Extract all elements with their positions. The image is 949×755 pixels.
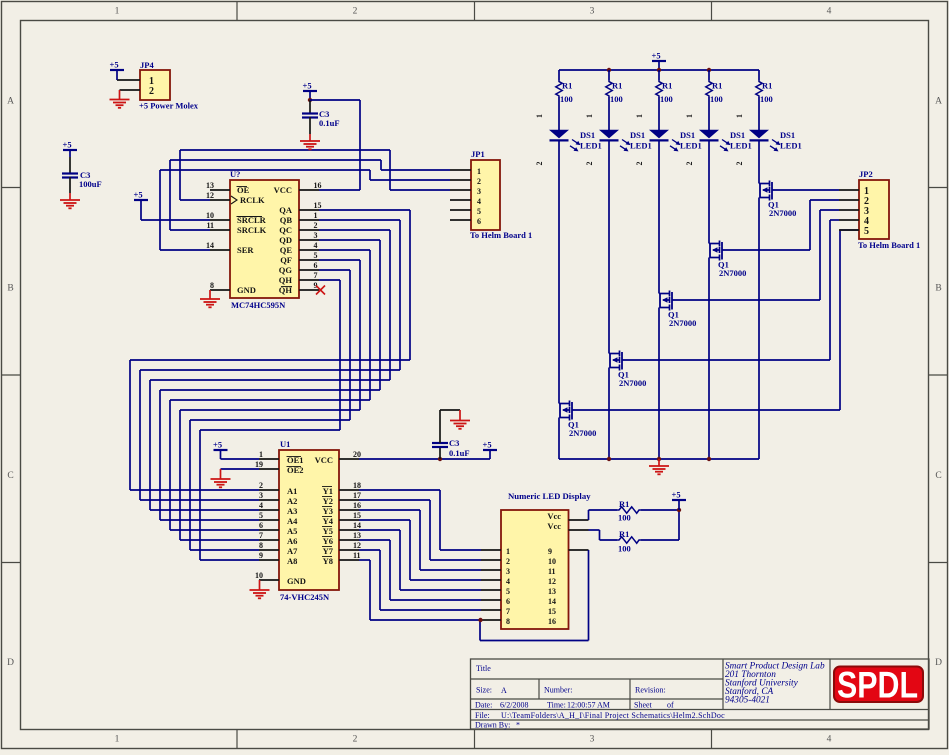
svg-text:4: 4 <box>827 7 832 17</box>
svg-text:100uF: 100uF <box>79 179 102 189</box>
svg-text:LED1: LED1 <box>680 141 702 151</box>
pin U2.2 QC <box>299 221 319 230</box>
pin U2.7 QH <box>299 271 319 280</box>
pin U1.3 A2 <box>259 491 279 500</box>
wire Q1 gate to JP2.1 <box>772 189 839 191</box>
svg-text:QF: QF <box>280 255 292 265</box>
wire Y2 to display pin 2 <box>359 500 481 560</box>
svg-text:2: 2 <box>506 557 510 566</box>
ground at LED rail <box>649 459 669 474</box>
pin JP1.2 <box>450 179 471 181</box>
svg-text:20: 20 <box>353 450 361 459</box>
svg-text:3: 3 <box>477 187 481 196</box>
pin U2.4 QE <box>299 241 319 250</box>
pin display.7 <box>481 609 501 611</box>
svg-text:2: 2 <box>353 7 358 17</box>
svg-text:15: 15 <box>548 607 556 616</box>
wire Y8 to display pin 8 <box>359 560 481 620</box>
pin U2.16 VCC <box>299 181 322 190</box>
pin U1.7 A6 <box>259 531 279 540</box>
svg-text:5: 5 <box>314 251 318 260</box>
svg-text:8: 8 <box>259 541 263 550</box>
svg-text:A5: A5 <box>287 526 297 536</box>
svg-text:7: 7 <box>259 531 263 540</box>
svg-text:QG: QG <box>279 265 293 275</box>
svg-text:QE: QE <box>280 245 293 255</box>
svg-text:9: 9 <box>259 551 263 560</box>
svg-text:2: 2 <box>149 86 154 97</box>
svg-text:15: 15 <box>314 201 322 210</box>
svg-text:5: 5 <box>506 587 510 596</box>
wire Y1 to display pin 1 <box>359 490 481 550</box>
svg-text:2: 2 <box>535 162 544 166</box>
pin U1.5 A4 <box>259 511 279 520</box>
svg-text:LED1: LED1 <box>730 141 752 151</box>
pin display.2 <box>481 559 501 561</box>
svg-text:2N7000: 2N7000 <box>669 318 696 328</box>
junction LED rail x659 <box>657 68 661 72</box>
wire Y6 to display pin 6 <box>359 540 481 600</box>
svg-text:R1: R1 <box>762 81 772 91</box>
resistor R1 (LED column 1) <box>556 70 573 104</box>
svg-text:B: B <box>935 284 941 294</box>
svg-text:+5: +5 <box>672 490 681 500</box>
svg-text:+5: +5 <box>652 51 661 61</box>
pin JP1.5 <box>450 209 471 211</box>
svg-text:R1: R1 <box>619 499 629 509</box>
svg-text:Drawn By:: Drawn By: <box>475 721 510 730</box>
svg-text:12: 12 <box>353 541 361 550</box>
svg-text:A6: A6 <box>287 536 297 546</box>
pin U2.3 QD <box>299 231 319 240</box>
svg-text:6/2/2008: 6/2/2008 <box>500 701 528 710</box>
svg-text:2: 2 <box>259 481 263 490</box>
svg-text:7: 7 <box>314 271 318 280</box>
junction top C3 <box>308 98 312 102</box>
wire +5 LED rail <box>559 69 759 71</box>
transistor Q1 2N7000 (JP2 pin 5) <box>559 401 596 439</box>
transistor Q1 2N7000 (JP2 pin 2) <box>709 241 746 279</box>
junction LED rail x609 <box>607 68 611 72</box>
ground at C3 0.1uF (U2) <box>300 134 320 149</box>
ground at U1 GND <box>250 580 270 598</box>
wire QD to U1 A4 <box>160 240 380 520</box>
pin display.1 <box>481 549 501 551</box>
wire R1 to LED 2 <box>608 97 610 130</box>
svg-text:R1: R1 <box>662 81 672 91</box>
wire U1.19 to ground <box>221 468 260 470</box>
ground at JP4 <box>110 90 130 108</box>
svg-text:A4: A4 <box>287 516 298 526</box>
pin JP1.6 <box>450 219 471 221</box>
wire display pin9 loop to pin8 <box>480 550 589 641</box>
svg-text:100: 100 <box>660 94 673 104</box>
svg-text:JP2: JP2 <box>859 169 873 179</box>
svg-text:2: 2 <box>477 177 481 186</box>
capacitor C3 0.1uF (U1) <box>432 410 470 459</box>
wire U1 VCC net <box>359 458 490 460</box>
svg-text:4: 4 <box>506 577 510 586</box>
pin U2.10 SRCLR <box>206 211 230 220</box>
svg-text:2: 2 <box>735 162 744 166</box>
svg-text:3: 3 <box>259 491 263 500</box>
svg-text:JP4: JP4 <box>140 60 154 70</box>
connector JP4 <box>139 60 199 111</box>
pin JP1.4 <box>450 199 471 201</box>
svg-text:Y1: Y1 <box>323 486 333 496</box>
pin U1.10 GND <box>255 571 279 580</box>
svg-text:2N7000: 2N7000 <box>719 268 746 278</box>
svg-text:1: 1 <box>735 114 744 118</box>
svg-text:3: 3 <box>506 567 510 576</box>
wire Y5 to display pin 5 <box>359 530 481 590</box>
pin U1.4 A3 <box>259 501 279 510</box>
svg-text:MC74HC595N: MC74HC595N <box>231 300 286 310</box>
wire +5 to U1.1 <box>221 458 260 460</box>
svg-text:QC: QC <box>279 225 292 235</box>
svg-text:C: C <box>7 471 13 481</box>
svg-text:DS1: DS1 <box>680 130 695 140</box>
resistor R1 (LED column 5) <box>756 70 773 104</box>
wire Q5 gate to JP2.5 <box>572 230 860 410</box>
pin U1.9 A8 <box>259 551 279 560</box>
wire QH to U1 A8 <box>200 280 340 560</box>
+5 at LED rail <box>652 51 667 71</box>
transistor Q1 2N7000 (JP2 pin 4) <box>609 351 646 389</box>
address block <box>725 662 825 706</box>
svg-text:Time:: Time: <box>547 701 566 710</box>
svg-text:7: 7 <box>506 607 510 616</box>
svg-text:13: 13 <box>548 587 556 596</box>
svg-text:94305-4021: 94305-4021 <box>725 696 770 706</box>
svg-text:A8: A8 <box>287 556 297 566</box>
wire LED 4 cathode to Q1 drain <box>708 140 710 243</box>
pin display Vcc2 <box>569 529 589 531</box>
pin U1.2 A1 <box>259 481 279 490</box>
svg-text:16: 16 <box>548 617 556 626</box>
junction U1 VCC <box>438 457 442 461</box>
svg-text:10: 10 <box>255 571 263 580</box>
pin display.6 <box>481 599 501 601</box>
svg-text:2: 2 <box>585 162 594 166</box>
svg-text:Title: Title <box>476 664 491 673</box>
svg-text:*: * <box>516 721 520 730</box>
title block texts <box>475 664 725 730</box>
pin U2.5 QF <box>299 251 319 260</box>
junction rail x659 <box>657 457 661 461</box>
svg-text:Sheet: Sheet <box>634 701 653 710</box>
svg-text:+5 Power Molex: +5 Power Molex <box>139 101 199 111</box>
junction display +5 <box>677 508 681 512</box>
svg-text:74-VHC245N: 74-VHC245N <box>280 592 330 602</box>
svg-text:B: B <box>7 284 13 294</box>
wire QE to U1 A5 <box>170 250 370 530</box>
transistor Q1 2N7000 (JP2 pin 1) <box>759 181 796 219</box>
svg-text:10: 10 <box>548 557 556 566</box>
capacitor C3 0.1uF (U2) <box>302 100 340 134</box>
svg-text:+5: +5 <box>213 440 222 450</box>
wire LED 2 cathode to Q1 drain <box>608 140 610 353</box>
svg-text:SER: SER <box>237 245 254 255</box>
svg-text:DS1: DS1 <box>630 130 645 140</box>
svg-text:+5: +5 <box>303 81 312 91</box>
svg-text:15: 15 <box>353 511 361 520</box>
pin display.5 <box>481 589 501 591</box>
pin U1.17 Y2 <box>339 491 361 500</box>
+5 at C3 100uF <box>63 140 78 158</box>
svg-text:1: 1 <box>314 211 318 220</box>
svg-text:4: 4 <box>259 501 263 510</box>
svg-text:Y6: Y6 <box>323 536 333 546</box>
svg-text:19: 19 <box>255 460 263 469</box>
svg-text:File:: File: <box>475 711 490 720</box>
wire Y7 to display pin 7 <box>359 550 481 610</box>
svg-text:Y7: Y7 <box>323 546 334 556</box>
svg-text:6: 6 <box>259 521 263 530</box>
svg-text:Date:: Date: <box>475 701 492 710</box>
svg-text:18: 18 <box>353 481 361 490</box>
pin U2.13 OE <box>206 181 230 190</box>
svg-text:14: 14 <box>548 597 556 606</box>
svg-text:10: 10 <box>206 211 214 220</box>
svg-text:Size:: Size: <box>476 686 492 695</box>
svg-text:11: 11 <box>548 567 556 576</box>
svg-text:16: 16 <box>314 181 322 190</box>
wire SRCLK net <box>170 160 450 230</box>
svg-text:5: 5 <box>864 226 869 237</box>
ground at U1 OE2 <box>211 469 231 487</box>
pin U1.19 OE2 <box>255 460 279 469</box>
wire Q sources to ground rail <box>559 198 759 460</box>
svg-text:100: 100 <box>618 513 631 523</box>
svg-text:14: 14 <box>206 241 214 250</box>
wire R1 to +5 riser <box>678 510 680 540</box>
svg-text:3: 3 <box>314 231 318 240</box>
pin display.4 <box>481 579 501 581</box>
svg-text:11: 11 <box>206 221 214 230</box>
pin U1.12 Y7 <box>339 541 361 550</box>
svg-text:12:00:57 AM: 12:00:57 AM <box>567 701 610 710</box>
svg-text:2: 2 <box>685 162 694 166</box>
resistor R1 (LED column 4) <box>706 70 723 104</box>
wire Q4 gate to JP2.4 <box>622 220 840 360</box>
svg-text:11: 11 <box>353 551 361 560</box>
svg-text:D: D <box>7 658 14 668</box>
svg-text:SPDL: SPDL <box>837 665 918 706</box>
svg-text:4: 4 <box>314 241 318 250</box>
svg-text:RCLK: RCLK <box>240 195 265 205</box>
wire +5 to U2.10 <box>141 219 210 221</box>
svg-text:9: 9 <box>548 547 552 556</box>
wire R1 to LED 3 <box>658 97 660 130</box>
svg-text:DS1: DS1 <box>730 130 745 140</box>
wire LED 3 cathode to Q1 drain <box>658 140 660 293</box>
svg-text:A3: A3 <box>287 506 297 516</box>
pin display Vcc1 <box>569 519 589 521</box>
wire R1 to LED 4 <box>708 97 710 130</box>
svg-text:A: A <box>7 97 14 107</box>
junction LED rail x709 <box>707 68 711 72</box>
svg-text:Y2: Y2 <box>323 496 333 506</box>
svg-text:100: 100 <box>710 94 723 104</box>
pin U2.6 QG <box>299 261 319 270</box>
svg-text:VCC: VCC <box>274 185 292 195</box>
LED DS1 (column 5) <box>749 130 802 152</box>
wire Y4 to display pin 4 <box>359 520 481 580</box>
svg-text:A: A <box>935 97 942 107</box>
svg-text:100: 100 <box>760 94 773 104</box>
+5 at JP4 <box>110 60 125 81</box>
svg-text:2N7000: 2N7000 <box>769 208 796 218</box>
svg-text:Number:: Number: <box>544 686 572 695</box>
pin JP4.1 <box>117 79 140 81</box>
pin U2.8 GND <box>210 281 230 290</box>
wire QA to U1 A1 <box>130 210 410 490</box>
svg-text:1: 1 <box>506 547 510 556</box>
LED DS1 (column 2) <box>599 130 652 152</box>
svg-text:R1: R1 <box>562 81 572 91</box>
svg-text:12: 12 <box>206 191 214 200</box>
+5 at display resistors <box>672 490 687 511</box>
pin display.3 <box>481 569 501 571</box>
svg-text:Y3: Y3 <box>323 506 333 516</box>
ground at C3 (U1) <box>450 410 470 429</box>
svg-text:2N7000: 2N7000 <box>569 428 596 438</box>
svg-text:U1: U1 <box>280 439 290 449</box>
pin U2.14 SER <box>206 241 230 250</box>
svg-text:1: 1 <box>115 735 120 745</box>
wire QC to U1 A3 <box>150 230 390 510</box>
IC U2 MC74HC595N <box>230 169 299 310</box>
svg-text:12: 12 <box>548 577 556 586</box>
svg-text:2: 2 <box>353 735 358 745</box>
svg-text:+5: +5 <box>63 140 72 150</box>
connector JP2 <box>858 169 920 250</box>
pin U1.13 Y6 <box>339 531 361 540</box>
svg-text:4: 4 <box>477 197 481 206</box>
svg-text:8: 8 <box>506 617 510 626</box>
pin display.9 <box>569 549 589 551</box>
svg-text:5: 5 <box>259 511 263 520</box>
svg-text:0.1uF: 0.1uF <box>449 448 470 458</box>
svg-text:QH: QH <box>279 275 293 285</box>
pin U1.15 Y4 <box>339 511 361 520</box>
svg-text:LED1: LED1 <box>780 141 802 151</box>
svg-text:VCC: VCC <box>315 455 333 465</box>
wire SER net <box>160 170 450 250</box>
svg-text:Y8: Y8 <box>323 556 333 566</box>
svg-text:+5: +5 <box>134 190 143 200</box>
svg-text:DS1: DS1 <box>780 130 795 140</box>
+5 at U1 VCC <box>483 440 498 460</box>
svg-text:1: 1 <box>535 114 544 118</box>
pin JP2.1 <box>839 189 859 191</box>
svg-text:QA: QA <box>279 205 293 215</box>
svg-text:14: 14 <box>353 521 361 530</box>
wire QG to U1 A7 <box>190 270 350 550</box>
svg-text:Vcc: Vcc <box>547 521 561 531</box>
resistor R1 (LED column 2) <box>606 70 623 104</box>
pin U1.6 A5 <box>259 521 279 530</box>
pin JP2.5 <box>839 229 859 231</box>
no-connect X at U2.9 <box>316 286 325 295</box>
LED DS1 (column 1) <box>549 130 602 152</box>
svg-text:QB: QB <box>280 215 293 225</box>
svg-text:100: 100 <box>610 94 623 104</box>
pin display.8 <box>481 619 501 621</box>
pin U2.11 SRCLK <box>206 221 230 230</box>
+5 at C3 0.1uF top <box>303 81 318 101</box>
svg-text:6: 6 <box>477 217 481 226</box>
svg-text:U:\TeamFolders\A_H_I\Final Pro: U:\TeamFolders\A_H_I\Final Project Schem… <box>501 711 725 720</box>
svg-text:To Helm Board 1: To Helm Board 1 <box>470 230 532 240</box>
junction rail x609 <box>607 457 611 461</box>
svg-text:Revision:: Revision: <box>635 686 666 695</box>
pin U1.14 Y5 <box>339 521 361 530</box>
svg-text:R1: R1 <box>612 81 622 91</box>
+5 at U2 SRCLR <box>134 190 149 221</box>
pin JP2.4 <box>839 219 859 221</box>
pin JP2.3 <box>839 209 859 211</box>
capacitor C3 100uF <box>62 157 102 193</box>
svg-text:A2: A2 <box>287 496 297 506</box>
svg-text:LED1: LED1 <box>580 141 602 151</box>
svg-text:3: 3 <box>590 7 595 17</box>
wire Y3 to display pin 3 <box>359 510 481 570</box>
svg-text:16: 16 <box>353 501 361 510</box>
resistor R1 (display Vcc1) <box>589 499 680 523</box>
pin U2.1 QB <box>299 211 319 220</box>
wire Q3 gate to JP2.3 <box>672 210 840 300</box>
svg-text:GND: GND <box>287 576 306 586</box>
connector JP1 <box>470 149 532 240</box>
svg-text:A: A <box>501 686 507 695</box>
wire R1 to LED 5 <box>758 97 760 130</box>
svg-text:13: 13 <box>206 181 214 190</box>
+5 at U1 OE1 <box>213 440 228 460</box>
Numeric LED Display <box>501 491 591 629</box>
pin JP4.2 <box>120 89 141 91</box>
svg-text:6: 6 <box>506 597 510 606</box>
pin JP1.3 <box>450 189 471 191</box>
svg-text:4: 4 <box>827 735 832 745</box>
svg-text:A7: A7 <box>287 546 298 556</box>
svg-text:C3: C3 <box>449 438 459 448</box>
svg-text:A1: A1 <box>287 486 297 496</box>
svg-text:Vcc: Vcc <box>547 511 561 521</box>
svg-text:D: D <box>935 658 942 668</box>
svg-text:2N7000: 2N7000 <box>619 378 646 388</box>
LED DS1 (column 4) <box>699 130 752 152</box>
svg-text:1: 1 <box>115 7 120 17</box>
svg-text:17: 17 <box>353 491 361 500</box>
svg-text:To Helm Board 1: To Helm Board 1 <box>858 240 920 250</box>
svg-text:+5: +5 <box>110 60 119 70</box>
svg-text:1: 1 <box>635 114 644 118</box>
svg-text:Y5: Y5 <box>323 526 333 536</box>
svg-text:2: 2 <box>635 162 644 166</box>
pin U2.12 RCLK <box>206 191 230 200</box>
pin U1.8 A7 <box>259 541 279 550</box>
svg-text:R1: R1 <box>712 81 722 91</box>
svg-text:100: 100 <box>618 544 631 554</box>
pin U1.16 Y3 <box>339 501 361 510</box>
svg-text:GND: GND <box>237 285 256 295</box>
svg-text:2: 2 <box>314 221 318 230</box>
wire LED 5 cathode to Q1 drain <box>758 140 760 183</box>
pin JP2.2 <box>839 199 859 201</box>
svg-text:DS1: DS1 <box>580 130 595 140</box>
